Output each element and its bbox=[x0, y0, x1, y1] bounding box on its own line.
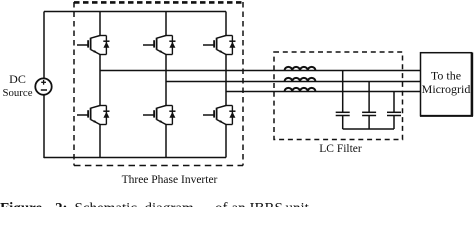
wire: leg 1 lower segment bbox=[99, 125, 101, 158]
svg-text:Figure: Figure bbox=[0, 201, 43, 208]
svg-text:To the: To the bbox=[431, 69, 461, 83]
DC source plus sign bbox=[41, 80, 46, 85]
svg-text:unit: unit bbox=[286, 201, 310, 208]
label: To the Microgrid bbox=[422, 69, 471, 97]
svg-text:Source: Source bbox=[3, 87, 33, 99]
inductor L1 (phase A) bbox=[285, 67, 316, 71]
wire: leg 1 upper segment bbox=[99, 12, 101, 36]
dashed box: LC filter bbox=[274, 52, 403, 140]
capacitor C2 (phase B shunt) bbox=[362, 82, 376, 130]
wire: leg 3 middle segment bbox=[225, 55, 227, 106]
diode D6 (anti-parallel of Q6) bbox=[226, 106, 236, 125]
svg-text:DC: DC bbox=[9, 72, 26, 86]
box bottom thick edge bbox=[420, 115, 473, 117]
capacitor C3 (phase C shunt) bbox=[387, 92, 401, 130]
transistor Q4 (IGBT, leg 1 lower) bbox=[77, 106, 100, 125]
wire: phase B line bbox=[166, 81, 421, 83]
diode D2 (anti-parallel of Q2) bbox=[166, 36, 176, 55]
svg-text:LC Filter: LC Filter bbox=[319, 143, 362, 155]
caption: Figure 2 (cut off at bottom) bbox=[0, 201, 310, 217]
wire: phase C line bbox=[226, 91, 421, 93]
wire: leg 2 lower segment bbox=[165, 125, 167, 158]
wire: left vertical above DC source bbox=[43, 12, 45, 79]
dashed box: three phase inverter bbox=[74, 2, 243, 166]
DC source minus sign bbox=[41, 89, 47, 91]
capacitor C1 (phase A shunt) bbox=[336, 71, 350, 130]
svg-text:Schematic: Schematic bbox=[75, 201, 138, 208]
label: DC Source bbox=[3, 72, 33, 99]
box right thick edge bbox=[471, 53, 473, 117]
wire: left vertical below DC source bbox=[43, 95, 45, 158]
diode D5 (anti-parallel of Q5) bbox=[166, 106, 176, 125]
inductor L2 (phase B) bbox=[285, 78, 316, 82]
transistor Q3 (IGBT, leg 3 upper) bbox=[203, 36, 226, 55]
svg-text:Three Phase Inverter: Three Phase Inverter bbox=[122, 174, 218, 186]
svg-text:Microgrid: Microgrid bbox=[422, 82, 471, 96]
svg-text:2:: 2: bbox=[55, 201, 68, 208]
svg-text:IBRS: IBRS bbox=[250, 201, 283, 208]
svg-text:diagram: diagram bbox=[145, 201, 194, 208]
wire: leg 3 lower segment bbox=[225, 125, 227, 158]
diode D1 (anti-parallel of Q1) bbox=[100, 36, 110, 55]
diode D3 (anti-parallel of Q3) bbox=[226, 36, 236, 55]
wire: top DC rail bbox=[44, 11, 226, 13]
svg-text:of: of bbox=[215, 201, 228, 208]
wire: leg 2 middle segment bbox=[165, 55, 167, 106]
transistor Q2 (IGBT, leg 2 upper) bbox=[143, 36, 166, 55]
wire: leg 3 upper segment bbox=[225, 12, 227, 36]
wire: capacitor star-point bus bbox=[343, 128, 394, 130]
transistor Q6 (IGBT, leg 3 lower) bbox=[203, 106, 226, 125]
transistor Q1 (IGBT, leg 1 upper) bbox=[77, 36, 100, 55]
inductor L3 (phase C) bbox=[285, 88, 316, 92]
box: To the Microgrid bbox=[421, 53, 472, 116]
wire: leg 2 upper segment bbox=[165, 12, 167, 36]
wire: phase A line bbox=[100, 70, 421, 72]
svg-text:an: an bbox=[232, 201, 247, 208]
DC source V1 circle bbox=[35, 78, 51, 94]
transistor Q5 (IGBT, leg 2 lower) bbox=[143, 106, 166, 125]
wire: bottom DC rail bbox=[44, 157, 226, 159]
diode D4 (anti-parallel of Q4) bbox=[100, 106, 110, 125]
wire: leg 1 middle segment bbox=[99, 55, 101, 106]
